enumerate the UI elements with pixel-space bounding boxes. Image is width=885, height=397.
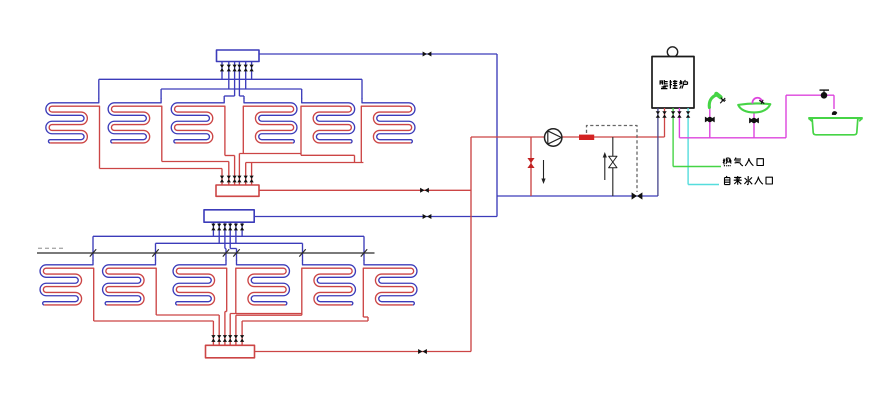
floor heating coil FH1-1 xyxy=(46,98,100,148)
floor slab section line xyxy=(37,252,375,254)
floor heating coil FH2-3 xyxy=(173,260,227,310)
circulation pump P1 xyxy=(545,129,562,146)
boiler connection stems xyxy=(657,108,659,196)
supply manifold M1 (zone 1) xyxy=(217,50,260,62)
floor heating coil FH1-2 xyxy=(108,98,162,148)
floor heating coil FH1-3 xyxy=(171,98,225,148)
valve V1 xyxy=(423,52,432,57)
wire: coil FH2-6 return to stem 6 xyxy=(362,310,364,317)
floor heating coil FH1-6 xyxy=(361,98,415,148)
valve V2 xyxy=(423,214,432,219)
return manifold M2 (zone 1) xyxy=(216,185,259,196)
wire: return riser xyxy=(470,137,472,352)
basin faucet ring xyxy=(753,98,763,104)
supply manifold M3 (zone 2) xyxy=(204,210,254,222)
boiler stem valves xyxy=(656,111,660,118)
label: boiler 壁挂炉 xyxy=(660,80,688,89)
gas inlet line xyxy=(673,166,721,168)
wire: supply fan level A (zone 1) xyxy=(99,78,362,80)
wire: supply fan level C (zone 2) xyxy=(225,248,226,250)
wire: zone 2 return main xyxy=(255,351,471,353)
manifold stems (zone 1 return) xyxy=(221,169,223,186)
stem shutoff valves (zone 1 supply) xyxy=(220,65,224,72)
wire: zone 1 return main xyxy=(259,189,471,191)
wire: supply fan level A (zone 2) xyxy=(93,235,364,237)
valve V4 xyxy=(420,188,429,193)
floor heating coil FH2-1 xyxy=(40,260,94,310)
wall-hung boiler U1 xyxy=(652,57,694,109)
wire: coil FH1-1 return to stem 1 xyxy=(99,148,101,169)
wire: zone 1 supply main xyxy=(259,53,497,55)
hot water main (magenta) xyxy=(679,137,786,139)
wire: coil FH1-4 return to stem 4 xyxy=(242,148,244,154)
boiler flue xyxy=(667,47,677,57)
floor heating coil FH1-4 xyxy=(243,98,297,148)
wire: coil FH2-3 return to stem 3 xyxy=(226,310,228,312)
shower riser xyxy=(709,107,711,138)
label: 燃气入口 xyxy=(723,158,763,167)
wire: coil FH2-1 return to stem 1 xyxy=(93,310,95,321)
wire: coil FH1-3 return to stem 3 xyxy=(224,148,226,156)
bathtub xyxy=(808,117,862,120)
wire: zone 2 supply main xyxy=(254,216,497,218)
wire: coil FH1-2 return to stem 2 xyxy=(161,148,163,162)
floor heating coil FH2-2 xyxy=(103,260,157,310)
valve V7 (open) xyxy=(609,156,617,168)
label: 自来水入口 xyxy=(725,176,773,185)
wire: supply fan level B (zone 2) xyxy=(156,242,303,244)
manifold stems (zone 1 supply) xyxy=(221,62,223,80)
wire: coil FH2-2 return to stem 2 xyxy=(155,310,157,315)
tub stop valve xyxy=(821,92,828,99)
valve V6 xyxy=(527,158,534,168)
wire: bypass branch (red) xyxy=(530,137,532,196)
flow arrow up xyxy=(604,157,606,180)
floor heating coil FH1-5 xyxy=(301,98,355,148)
wire: boiler supply main xyxy=(471,136,665,138)
washbasin xyxy=(738,103,770,112)
return manifold M4 (zone 2) xyxy=(206,345,255,358)
tub faucet mark xyxy=(832,111,837,115)
wire: supply riser xyxy=(496,54,498,217)
valve V5 xyxy=(418,349,427,354)
faint level mark xyxy=(38,247,64,249)
shower valve xyxy=(705,117,715,123)
stem valves (zone 2 supply) xyxy=(211,224,215,231)
wire: coils FH2-4/FH2-5 return to stem 4 xyxy=(235,310,237,314)
wire: coil FH2-5 return to stem 5 xyxy=(236,314,302,316)
wire: boiler return main xyxy=(497,195,658,197)
tap water inlet line xyxy=(688,184,719,186)
washbasin riser xyxy=(753,113,755,138)
floor heating coil FH2-6 xyxy=(363,260,417,310)
floor heating coil FH2-4 xyxy=(236,260,290,310)
stem valves (zone 1 return) xyxy=(220,176,224,183)
shower spray marks xyxy=(720,98,725,103)
wire: supply fan level B (zone 1) xyxy=(161,88,302,90)
flow arrow down xyxy=(543,160,545,179)
valve V3 xyxy=(632,192,643,199)
dashed bypass line xyxy=(587,126,638,193)
stem valves (zone 2 return) xyxy=(211,335,215,342)
balance branch (dark) xyxy=(612,137,614,196)
wire: supply fan level C (zone 1) xyxy=(224,95,234,97)
shower head xyxy=(709,95,719,108)
manifold stems (zone 2 return) xyxy=(212,321,214,345)
wire: coils FH1-5/FH1-6 return to stems 5/6 xyxy=(246,162,364,164)
slab crossing slashes xyxy=(90,249,96,256)
floor heating coil FH2-5 xyxy=(302,260,356,310)
wire: coil FH1-5 return jog xyxy=(300,148,302,155)
filter / fill valve (red block) xyxy=(579,135,594,140)
manifold stems (zone 2 supply) xyxy=(212,222,214,236)
washbasin valve xyxy=(749,118,759,124)
